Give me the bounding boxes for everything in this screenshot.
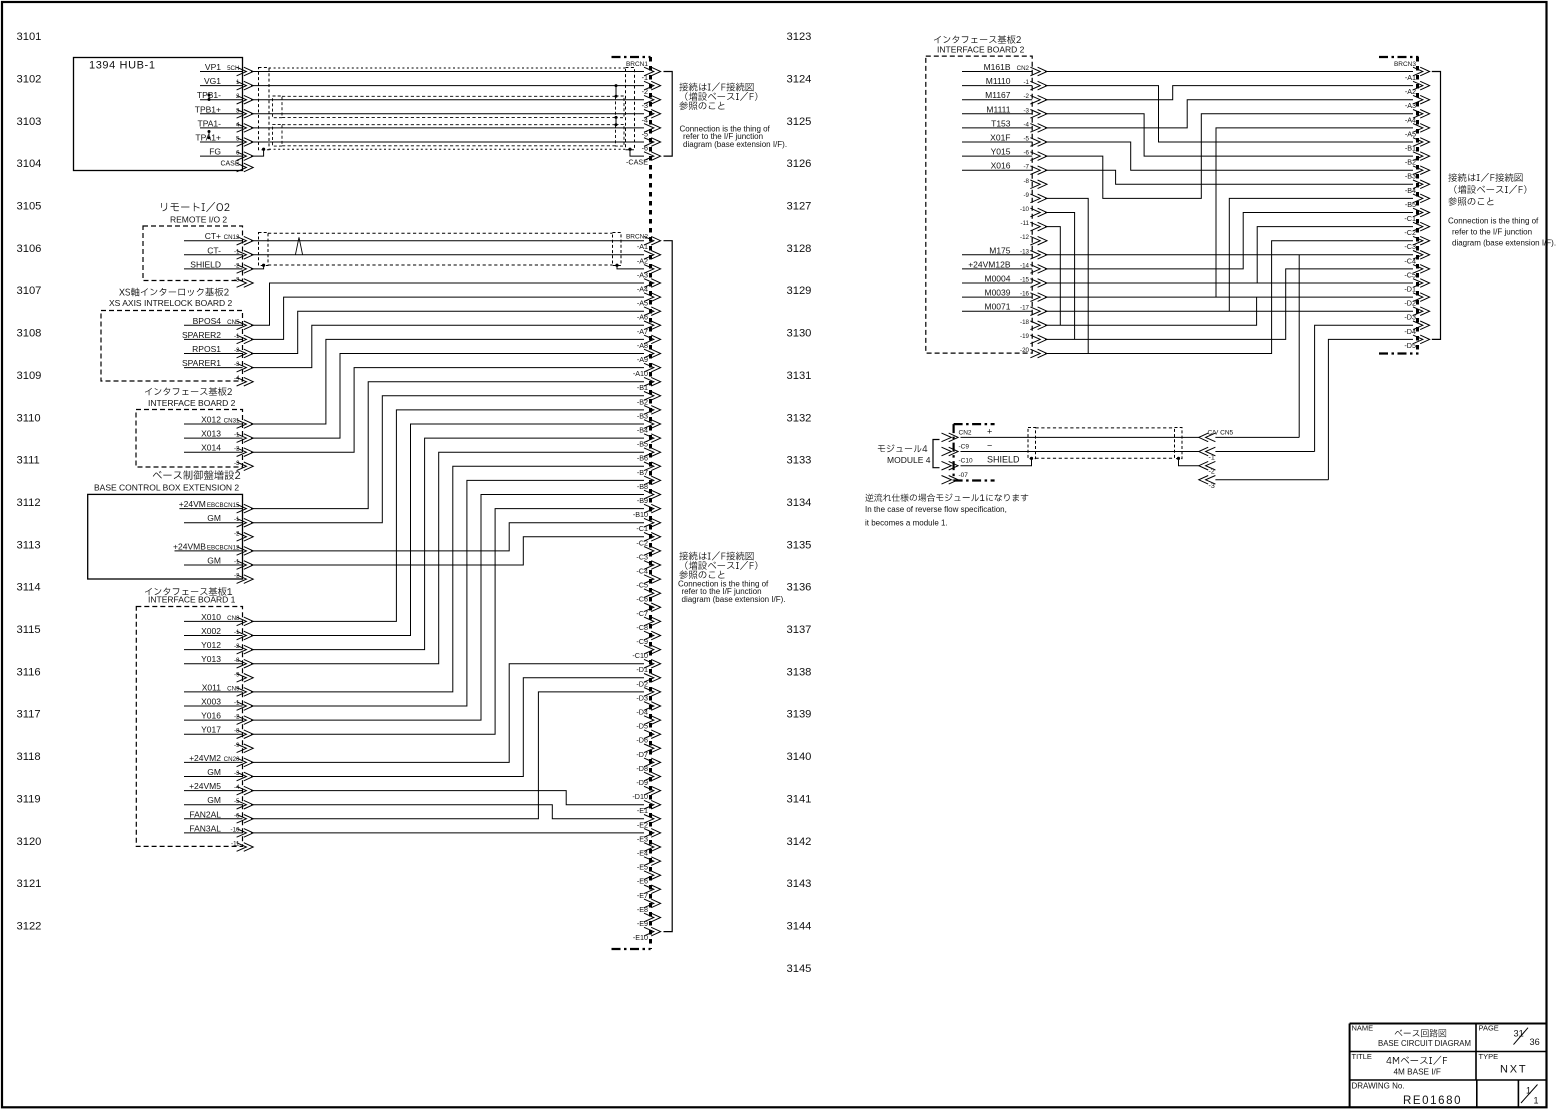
svg-text:FG: FG xyxy=(209,147,221,157)
wire M0004 riser to BRCN3 -C2 xyxy=(1257,227,1413,283)
wire SPARER2 to BRCN2 -A5 xyxy=(251,297,644,339)
svg-text:-B5: -B5 xyxy=(637,440,648,449)
pin VP1 (5CH) of 1394 HUB-1 xyxy=(200,62,243,72)
BRCN2 pin -D4 arrow xyxy=(644,702,661,711)
svg-text:3132: 3132 xyxy=(787,412,812,424)
connector BRCN1 outline xyxy=(612,56,651,58)
svg-text:-C7: -C7 xyxy=(636,609,648,618)
svg-text:3118: 3118 xyxy=(17,751,41,763)
module cable shield right end xyxy=(1175,428,1183,459)
pin arrow +24VMB xyxy=(237,547,254,556)
wire CN5 - to riser xyxy=(1215,451,1314,453)
pin +24VM5 row xyxy=(184,781,243,791)
pin +24VM row xyxy=(179,499,243,509)
svg-text:SPARER2: SPARER2 xyxy=(182,330,221,340)
svg-text:-2: -2 xyxy=(1209,469,1215,476)
wire GM to BRCN2 -E2 xyxy=(251,805,644,819)
connector BRCN3 outline xyxy=(1379,57,1419,354)
remote cable shield right end xyxy=(613,233,622,266)
svg-text:-1: -1 xyxy=(642,73,648,82)
svg-text:MODULE 4: MODULE 4 xyxy=(887,455,931,465)
svg-text:3108: 3108 xyxy=(17,328,42,340)
pin TPB1- (2) of 1394 HUB-1 xyxy=(197,90,243,100)
pin arrow TPB1+ xyxy=(237,110,254,119)
wire VP1 1394 HUB-1 to BRCN1 -1 xyxy=(251,71,644,73)
1394 cable overall shield left end xyxy=(259,68,270,150)
wire CN5 -3 to riser xyxy=(1215,479,1328,481)
svg-text:-C2: -C2 xyxy=(1404,228,1416,237)
svg-text:-E9: -E9 xyxy=(637,919,648,928)
svg-text:-D2: -D2 xyxy=(636,679,648,688)
svg-text:3135: 3135 xyxy=(787,539,812,551)
svg-text:-A1: -A1 xyxy=(637,242,648,251)
svg-text:-C9: -C9 xyxy=(636,637,648,646)
pin X016 of interface board 2 xyxy=(962,161,1032,171)
svg-text:3120: 3120 xyxy=(17,836,42,848)
pin arrow CN2 -16 xyxy=(1030,293,1047,302)
CN5 pin arrow -1 xyxy=(1199,447,1216,456)
pin GM row xyxy=(184,513,243,523)
svg-text:-B8: -B8 xyxy=(637,482,648,491)
svg-text:3143: 3143 xyxy=(787,878,812,890)
BRCN1 pin -5 arrow xyxy=(644,124,661,133)
pin arrow CN2 -2 xyxy=(1030,95,1047,104)
svg-text:-D8: -D8 xyxy=(636,764,648,773)
svg-text:−: − xyxy=(987,441,992,451)
pair B shield left end xyxy=(273,96,283,118)
svg-text:TITLE: TITLE xyxy=(1352,1052,1372,1061)
pin arrow -11 xyxy=(237,843,254,852)
pin arrow Y013 xyxy=(237,659,254,668)
pin FG (6) of 1394 HUB-1 xyxy=(200,147,243,157)
svg-text:-D1: -D1 xyxy=(636,665,648,674)
board box INTERFACE BOARD 2 right xyxy=(926,56,1032,353)
svg-text:-C4: -C4 xyxy=(1404,256,1416,265)
svg-text:-C4: -C4 xyxy=(636,567,648,576)
module 4 labels xyxy=(878,444,931,465)
pin Y017 row xyxy=(184,725,243,735)
svg-text:3136: 3136 xyxy=(787,582,812,594)
svg-text:NAME: NAME xyxy=(1352,1024,1374,1033)
svg-text:3104: 3104 xyxy=(17,158,42,170)
pin arrow TPB1- xyxy=(237,95,254,104)
svg-text:3134: 3134 xyxy=(787,497,812,509)
pin -2 row xyxy=(234,530,240,537)
pin arrow +24VM xyxy=(237,504,254,513)
BRCN2 pin -E4 arrow xyxy=(644,843,661,852)
note english refer to I/F junction diagram (BRCN1) xyxy=(680,125,788,150)
wire X014 to BRCN2 -A10 xyxy=(251,368,644,453)
pin arrow X012 xyxy=(237,420,254,429)
board box INTERFACE BOARD 1 xyxy=(136,607,242,847)
wire jumper pin -10 to pin -19 net xyxy=(1045,213,1075,340)
svg-text:-E6: -E6 xyxy=(637,877,648,886)
svg-text:X003: X003 xyxy=(201,697,221,707)
BRCN2 pin -B5 arrow xyxy=(644,434,661,443)
title block NAME cell xyxy=(1352,1024,1472,1048)
svg-text:-E5: -E5 xyxy=(637,863,648,872)
svg-text:-B2: -B2 xyxy=(637,397,648,406)
CN5 pin arrow -3 xyxy=(1199,476,1216,485)
BRCN3 pin -C4 arrow xyxy=(1413,251,1430,260)
svg-text:-D4: -D4 xyxy=(636,708,648,717)
svg-text:3116: 3116 xyxy=(17,666,41,678)
pin GM row xyxy=(184,767,243,777)
wire TPA1- 1394 HUB-1 to BRCN1 -5 xyxy=(251,127,644,129)
wire X01F to BRCN3 -B3 xyxy=(1045,142,1413,170)
pin arrow +24VM2 xyxy=(237,758,254,767)
wire M1110 to BRCN3 -B1 xyxy=(1045,86,1413,142)
BRCN2 pin -C5 arrow xyxy=(644,575,661,584)
svg-text:3142: 3142 xyxy=(787,836,812,848)
svg-text:-B7: -B7 xyxy=(637,468,648,477)
pin +24VM2 row xyxy=(184,753,243,763)
svg-text:-16: -16 xyxy=(1020,291,1030,298)
svg-text:3133: 3133 xyxy=(787,455,812,467)
wire Y017 to BRCN2 -B10 xyxy=(251,509,644,735)
svg-text:M175: M175 xyxy=(989,245,1011,255)
svg-text:-C3: -C3 xyxy=(1404,242,1416,251)
wire X010 to BRCN2 -B3 xyxy=(251,410,644,622)
svg-text:CN8: CN8 xyxy=(227,615,240,622)
svg-text:CN2: CN2 xyxy=(1017,65,1030,72)
pin arrow CN2 -7 xyxy=(1030,166,1047,175)
BRCN2 pin -E7 arrow xyxy=(644,885,661,894)
svg-text:-C5: -C5 xyxy=(1404,270,1416,279)
svg-text:3107: 3107 xyxy=(17,285,42,297)
pin X002 row xyxy=(184,626,243,636)
BRCN2 pin -C3 arrow xyxy=(644,547,661,556)
module pin -07 xyxy=(959,472,969,479)
svg-text:3141: 3141 xyxy=(787,793,812,805)
svg-text:X016: X016 xyxy=(991,161,1011,171)
svg-text:-3: -3 xyxy=(1209,483,1215,490)
svg-text:-C1: -C1 xyxy=(1404,214,1416,223)
svg-text:-B5: -B5 xyxy=(1405,200,1416,209)
pin Y012 row xyxy=(184,640,243,650)
svg-text:4M BASE I/F: 4M BASE I/F xyxy=(1394,1068,1441,1077)
note reverse flow specification xyxy=(865,494,1028,528)
svg-text:-A10: -A10 xyxy=(633,369,648,378)
svg-text:X010: X010 xyxy=(201,612,221,622)
wire jumper pin -9 to pin -20 net xyxy=(1045,198,1088,353)
svg-text:-B10: -B10 xyxy=(633,510,648,519)
wire Y016 to BRCN2 -B9 xyxy=(251,495,644,721)
svg-text:3109: 3109 xyxy=(17,370,42,382)
wire TPB1- 1394 HUB-1 to BRCN1 -3 xyxy=(251,99,644,101)
svg-text:refer to the I/F junction: refer to the I/F junction xyxy=(1452,228,1532,237)
board title INTERFACE BOARD 2 right xyxy=(934,35,1025,54)
BRCN2 pin -A2 arrow xyxy=(644,251,661,260)
BRCN2 pin -D10 arrow xyxy=(644,786,661,795)
svg-text:BRCN3: BRCN3 xyxy=(1394,61,1416,68)
pin arrow X011 xyxy=(237,688,254,697)
pin arrow -3 xyxy=(237,462,254,471)
pin arrow X013 xyxy=(237,434,254,443)
svg-text:3128: 3128 xyxy=(787,243,812,255)
BRCN2 pin -D6 arrow xyxy=(644,730,661,739)
svg-text:-D6: -D6 xyxy=(636,736,648,745)
svg-text:X013: X013 xyxy=(201,429,221,439)
BRCN2 pin -E5 arrow xyxy=(644,857,661,866)
wire pin -20 net to BRCN3 -C3 xyxy=(1045,241,1413,354)
BRCN2 pin -A8 arrow xyxy=(644,335,661,344)
BRCN2 pin -A9 arrow xyxy=(644,349,661,358)
BRCN2 pin -C10 arrow xyxy=(644,645,661,654)
pair A shield left end xyxy=(273,124,283,146)
svg-text:CN5: CN5 xyxy=(227,319,240,326)
board title REMOTE I/O 2 xyxy=(161,202,229,224)
svg-text:-A5: -A5 xyxy=(637,299,648,308)
svg-text:FAN2AL: FAN2AL xyxy=(189,809,221,819)
pin arrow VG1 xyxy=(237,81,254,90)
BRCN1 pin -6 arrow xyxy=(644,138,661,147)
pin arrow CN2 -4 xyxy=(1030,124,1047,133)
wire FG to cable shield xyxy=(251,149,264,156)
BRCN2 pin -D7 arrow xyxy=(644,744,661,753)
BRCN3 pin -D3 arrow xyxy=(1413,307,1430,316)
svg-text:1394 HUB-1: 1394 HUB-1 xyxy=(89,60,156,72)
svg-text:31: 31 xyxy=(1514,1029,1524,1039)
BRCN2 pin -E3 arrow xyxy=(644,829,661,838)
svg-text:-07: -07 xyxy=(959,472,969,479)
pin Y016 row xyxy=(184,711,243,721)
svg-text:-A4: -A4 xyxy=(1405,115,1416,124)
svg-text:+24VM5: +24VM5 xyxy=(189,781,221,791)
wire +24VM5 to BRCN2 -E1 xyxy=(251,791,644,805)
svg-text:-12: -12 xyxy=(1020,234,1030,241)
pin SPARER1 row xyxy=(182,358,243,368)
BRCN1 pin -4 arrow xyxy=(644,110,661,119)
pin arrow FG xyxy=(237,152,254,161)
svg-text:-E2: -E2 xyxy=(637,820,648,829)
wire jumper pin -11 to pin -18 net xyxy=(1045,227,1060,326)
svg-text:-B9: -B9 xyxy=(637,496,648,505)
svg-text:VP1: VP1 xyxy=(205,62,221,72)
svg-text:-E4: -E4 xyxy=(637,849,648,858)
svg-text:Y016: Y016 xyxy=(201,711,221,721)
remote cable shield left end xyxy=(259,233,269,266)
title block TYPE cell xyxy=(1479,1052,1528,1076)
BRCN1 pin -CASE arrow xyxy=(644,152,661,161)
svg-text:CASE: CASE xyxy=(220,161,239,168)
pair junction bar left B xyxy=(208,94,211,102)
wire CN5 - to BRCN3 -D4 xyxy=(1315,325,1413,451)
pin +24VM12B of interface board 2 xyxy=(962,259,1032,269)
BRCN3 pin -C1 arrow xyxy=(1413,208,1430,217)
svg-text:-C9: -C9 xyxy=(959,444,970,451)
pin arrow FAN3AL xyxy=(237,829,254,838)
pin X012 row xyxy=(184,415,243,425)
wire VG1 1394 HUB-1 to BRCN1 -2 xyxy=(251,85,644,87)
wire M0004 to BRCN3 -D1 xyxy=(1045,282,1413,284)
pin -9 row xyxy=(234,742,240,749)
BRCN3 pin -A1 arrow xyxy=(1413,67,1430,76)
wire CN5 + to riser xyxy=(1215,436,1299,438)
BRCN2 pin -D1 arrow xyxy=(644,659,661,668)
svg-text:X011: X011 xyxy=(202,682,221,692)
module pin -C10 SHIELD xyxy=(959,455,1021,465)
BRCN3 pin -A2 arrow xyxy=(1413,81,1430,90)
1394 cable overall shield dotted lines xyxy=(269,68,626,149)
pin TPB1+ (3) of 1394 HUB-1 xyxy=(195,104,243,114)
svg-text:-E1: -E1 xyxy=(637,806,648,815)
wire FAN3AL to BRCN2 -E3 xyxy=(251,832,644,834)
pin arrow GM xyxy=(237,800,254,809)
svg-text:-E8: -E8 xyxy=(637,905,648,914)
svg-text:5CH: 5CH xyxy=(227,65,239,72)
pin arrow CN2 -20 xyxy=(1030,349,1047,358)
pin TPA1+ (5) of 1394 HUB-1 xyxy=(195,133,242,143)
pin arrow X002 xyxy=(237,631,254,640)
pair junction bar left A xyxy=(208,130,211,139)
svg-text:-2: -2 xyxy=(1023,93,1029,100)
svg-text:TPA1-: TPA1- xyxy=(198,118,222,128)
wire M1167 to BRCN3 -A2 xyxy=(1045,86,1413,100)
BRCN2 pin -C4 arrow xyxy=(644,561,661,570)
svg-text:In the case of reverse flow sp: In the case of reverse flow specificatio… xyxy=(865,505,1007,514)
svg-text:BASE CONTROL BOX EXTENSION 2: BASE CONTROL BOX EXTENSION 2 xyxy=(94,483,239,493)
svg-text:3127: 3127 xyxy=(787,201,812,213)
wire cable shield to BRCN2 -A3 xyxy=(617,265,644,269)
svg-text:-11: -11 xyxy=(1021,220,1030,227)
wire Y012 to BRCN2 -B5 xyxy=(251,438,644,649)
svg-text:3110: 3110 xyxy=(17,412,41,424)
BRCN3 pin -C3 arrow xyxy=(1413,236,1430,245)
row reference numbers middle column 3123-3145 xyxy=(787,31,812,975)
pin arrow -9 xyxy=(237,674,254,683)
svg-text:-A8: -A8 xyxy=(637,341,648,350)
board box BASE CONTROL BOX EXTENSION 2 xyxy=(88,494,243,579)
BRCN2 pin -C7 arrow xyxy=(644,603,661,612)
svg-text:FAN3AL: FAN3AL xyxy=(189,823,221,833)
svg-text:-C2: -C2 xyxy=(636,538,648,547)
BRCN2 pin -E9 arrow xyxy=(644,913,661,922)
pin X014 row xyxy=(184,443,243,453)
pin CN2 -10 of interface board 2 xyxy=(1020,206,1030,213)
svg-text:-E3: -E3 xyxy=(637,834,648,843)
note japanese refer to I/F junction diagram (BRCN1) xyxy=(679,83,757,111)
svg-text:3112: 3112 xyxy=(17,497,41,509)
svg-text:3103: 3103 xyxy=(17,116,42,128)
pin X011 row xyxy=(184,682,243,692)
svg-text:CN2: CN2 xyxy=(959,429,972,436)
wire +24VM to BRCN2 -B1 xyxy=(251,382,644,509)
svg-text:diagram (base extension I/F).: diagram (base extension I/F). xyxy=(682,595,786,604)
wire module + to CN5 xyxy=(961,436,1199,438)
BRCN2 pin -C6 arrow xyxy=(644,589,661,598)
svg-text:INTERFACE BOARD 1: INTERFACE BOARD 1 xyxy=(148,595,236,605)
svg-text:-8: -8 xyxy=(1023,178,1029,185)
svg-text:-D4: -D4 xyxy=(1404,327,1416,336)
svg-text:+24VM: +24VM xyxy=(179,499,206,509)
svg-text:-D3: -D3 xyxy=(1404,313,1416,322)
svg-text:-B4: -B4 xyxy=(1405,186,1416,195)
remote cable shield dashed lines xyxy=(268,233,613,265)
wire M0071 riser to BRCN3 -B5 xyxy=(1229,198,1413,311)
BRCN1 pin -1 arrow xyxy=(644,67,661,76)
BRCN3 pin -B2 arrow xyxy=(1413,152,1430,161)
pin T153 of interface board 2 xyxy=(962,118,1032,128)
svg-text:-A3: -A3 xyxy=(637,270,648,279)
svg-text:3105: 3105 xyxy=(17,201,42,213)
pair junction bar right A xyxy=(615,116,618,126)
pin arrow TPA1- xyxy=(237,124,254,133)
svg-text:X014: X014 xyxy=(201,443,221,453)
pin arrow -9 xyxy=(237,744,254,753)
BRCN2 pin -B4 arrow xyxy=(644,420,661,429)
svg-text:-20: -20 xyxy=(1020,347,1030,354)
BRCN3 pin -D5 arrow xyxy=(1413,335,1430,344)
note english refer to I/F junction diagram (BRCN3) xyxy=(1448,217,1556,248)
svg-text:BPOS4: BPOS4 xyxy=(193,316,222,326)
svg-text:-CASE: -CASE xyxy=(626,158,648,167)
pin arrow CN2 -18 xyxy=(1030,321,1047,330)
svg-text:-E7: -E7 xyxy=(637,891,648,900)
svg-text:-10: -10 xyxy=(1020,206,1030,213)
module cable shield left end xyxy=(1028,428,1036,459)
svg-text:-13: -13 xyxy=(1020,248,1030,255)
BRCN2 pin -C2 arrow xyxy=(644,533,661,542)
pin arrow GM xyxy=(237,772,254,781)
svg-text:-D1: -D1 xyxy=(1404,285,1416,294)
svg-text:XS AXIS INTRELOCK BOARD 2: XS AXIS INTRELOCK BOARD 2 xyxy=(109,298,233,308)
svg-text:INTERFACE BOARD 2: INTERFACE BOARD 2 xyxy=(937,45,1025,55)
module pin -C9 − xyxy=(959,441,993,451)
pin arrow X014 xyxy=(237,448,254,457)
svg-text:CN12: CN12 xyxy=(224,234,240,241)
BRCN2 pin -B3 arrow xyxy=(644,406,661,415)
pin arrow TPA1+ xyxy=(237,138,254,147)
svg-text:M0071: M0071 xyxy=(985,302,1011,312)
BRCN2 pin -D2 arrow xyxy=(644,674,661,683)
BRCN2 pin -C8 arrow xyxy=(644,617,661,626)
svg-text:-D5: -D5 xyxy=(636,722,648,731)
BRCN2 pin -B2 arrow xyxy=(644,392,661,401)
wire SPARER1 to BRCN2 -A7 xyxy=(251,325,644,367)
svg-text:Connection is the thing of: Connection is the thing of xyxy=(1448,217,1539,226)
BRCN3 pin -B4 arrow xyxy=(1413,180,1430,189)
pin arrow X010 xyxy=(237,617,254,626)
pin M1111 of interface board 2 xyxy=(962,104,1032,114)
board title BASE CONTROL BOX EXTENSION 2 xyxy=(94,470,240,492)
svg-text:3131: 3131 xyxy=(787,370,812,382)
svg-text:VG1: VG1 xyxy=(204,76,221,86)
svg-text:-A9: -A9 xyxy=(637,355,648,364)
bracket BRCN3 group xyxy=(1432,72,1441,340)
BRCN3 pin -A3 arrow xyxy=(1413,95,1430,104)
pin FAN2AL row xyxy=(184,809,243,819)
pin M175 of interface board 2 xyxy=(962,245,1032,255)
module 4 bracket xyxy=(933,440,940,468)
wire M161B to BRCN3 -A1 xyxy=(1045,71,1413,73)
pin +24VMB row xyxy=(173,541,242,551)
pin -4 row xyxy=(234,375,240,382)
BRCN2 pin -E8 arrow xyxy=(644,899,661,908)
pin Y015 of interface board 2 xyxy=(962,147,1032,157)
svg-text:-3: -3 xyxy=(1023,107,1029,114)
svg-text:-A1: -A1 xyxy=(1405,73,1416,82)
pin arrow CN2 -5 xyxy=(1030,138,1047,147)
title block TITLE cell xyxy=(1352,1052,1448,1077)
wire GM to BRCN2 -B2 xyxy=(251,396,644,523)
svg-text:+: + xyxy=(987,426,992,436)
wire cable shield to CN5 -2 xyxy=(1179,458,1199,465)
svg-text:-C10: -C10 xyxy=(959,458,973,465)
BRCN3 pin -D1 arrow xyxy=(1413,279,1430,288)
svg-text:-E10: -E10 xyxy=(633,933,648,942)
svg-text:-6: -6 xyxy=(1023,150,1029,157)
